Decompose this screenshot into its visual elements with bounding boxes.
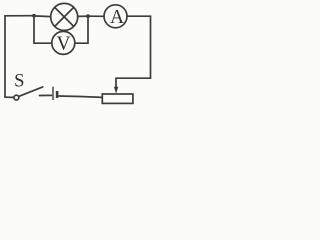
wire junction to lamp bbox=[34, 15, 51, 18]
battery cell: long plate bbox=[52, 87, 54, 100]
svg-text:A: A bbox=[110, 7, 124, 28]
svg-text:V: V bbox=[56, 34, 70, 55]
wire bottom-left corner to switch bbox=[5, 96, 14, 98]
ammeter A bbox=[104, 5, 127, 28]
voltmeter V bbox=[52, 31, 75, 54]
wire switch to battery bbox=[40, 94, 52, 96]
wire junction to ammeter bbox=[88, 15, 104, 17]
wire lamp to right junction bbox=[78, 15, 88, 17]
battery cell: short thick plate bbox=[56, 91, 59, 98]
rheostat R bbox=[102, 94, 133, 103]
switch S blade bbox=[19, 87, 43, 97]
rheostat slider arrow bbox=[115, 78, 117, 87]
svg-text:S: S bbox=[14, 71, 24, 92]
wire ammeter to right side down bbox=[127, 16, 151, 78]
wire right bottom horizontal to slider bbox=[116, 77, 151, 79]
switch S pivot bbox=[14, 95, 19, 100]
wire voltmeter branch left bbox=[34, 16, 52, 43]
node junction dot right bbox=[86, 14, 90, 18]
node junction dot left bbox=[32, 14, 36, 18]
wire voltmeter branch right bbox=[75, 16, 88, 43]
lamp L1 bbox=[51, 3, 78, 30]
wire left vertical + top-left horizontal bbox=[5, 16, 34, 98]
wire battery to rheostat bbox=[59, 96, 102, 97]
